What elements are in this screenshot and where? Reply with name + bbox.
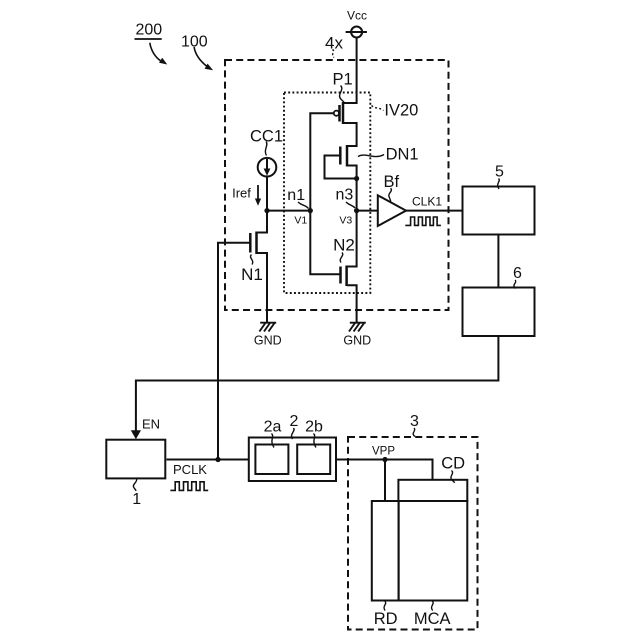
svg-text:RD: RD — [374, 610, 398, 628]
svg-text:n1: n1 — [287, 187, 305, 204]
svg-text:MCA: MCA — [414, 610, 451, 628]
svg-text:Iref: Iref — [232, 186, 251, 201]
svg-text:100: 100 — [181, 34, 208, 51]
svg-text:VPP: VPP — [372, 445, 395, 457]
svg-text:2: 2 — [290, 413, 299, 430]
svg-text:EN: EN — [142, 417, 160, 432]
svg-text:2a: 2a — [264, 419, 282, 436]
svg-text:200: 200 — [135, 22, 162, 39]
svg-text:PCLK: PCLK — [173, 462, 207, 477]
svg-text:Vcc: Vcc — [347, 8, 367, 22]
svg-text:1: 1 — [132, 491, 141, 508]
svg-text:3: 3 — [410, 413, 419, 430]
svg-text:CC1: CC1 — [250, 128, 283, 146]
svg-text:CLK1: CLK1 — [412, 195, 442, 209]
svg-text:4x: 4x — [325, 34, 343, 53]
svg-text:GND: GND — [254, 334, 282, 348]
svg-text:n3: n3 — [336, 187, 354, 204]
svg-text:GND: GND — [343, 334, 371, 348]
svg-text:N1: N1 — [241, 265, 263, 284]
svg-text:CD: CD — [441, 454, 465, 472]
svg-text:IV20: IV20 — [384, 102, 418, 120]
svg-text:5: 5 — [495, 163, 504, 180]
svg-text:V1: V1 — [294, 214, 307, 226]
svg-text:DN1: DN1 — [386, 146, 419, 164]
svg-text:6: 6 — [513, 265, 522, 282]
svg-text:P1: P1 — [333, 71, 353, 89]
svg-text:Bf: Bf — [384, 173, 400, 191]
svg-text:2b: 2b — [305, 419, 323, 436]
svg-text:V3: V3 — [339, 214, 352, 226]
svg-text:N2: N2 — [333, 236, 355, 255]
